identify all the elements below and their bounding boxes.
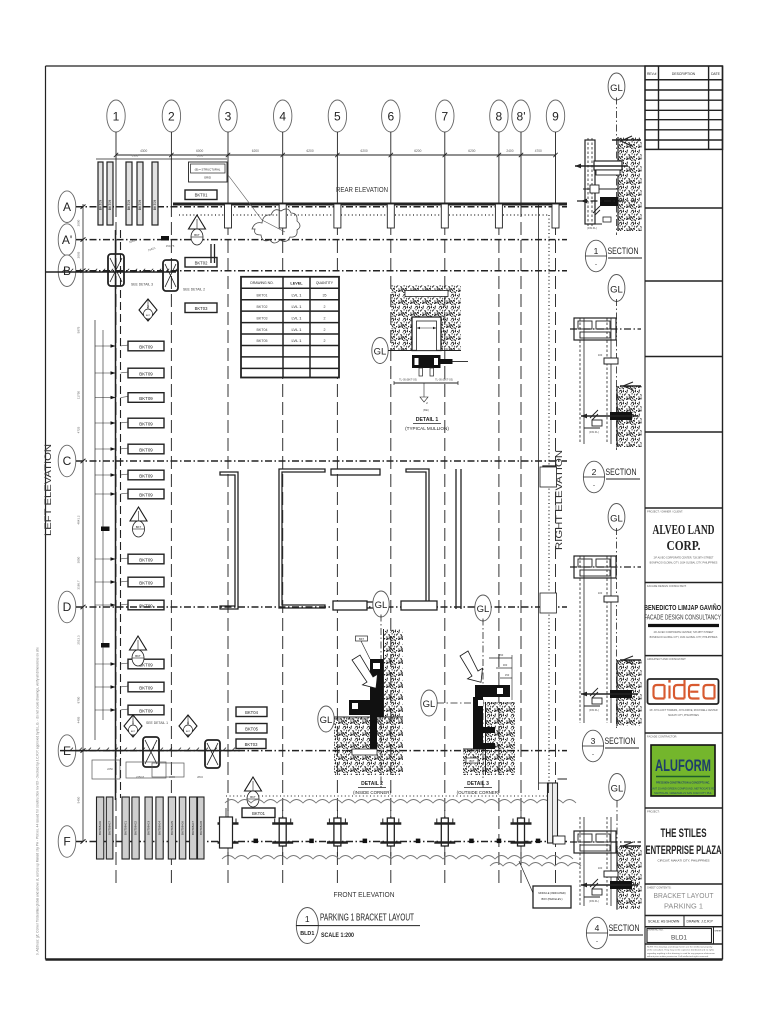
svg-text:4: 4 [595,923,600,933]
drawing number box: BLD1 [645,927,723,944]
svg-text:4841.2: 4841.2 [77,515,81,525]
svg-text:RIGHT ELEVATION: RIGHT ELEVATION [554,450,564,550]
svg-text:3/F JOYA LOFT TOWERS, JOYA DRI: 3/F JOYA LOFT TOWERS, JOYA DRIVE, ROCKWE… [649,709,718,712]
svg-text:1: 1 [305,914,310,924]
svg-text:6200: 6200 [361,149,368,153]
svg-text:2843: 2843 [197,775,203,779]
svg-text:GL: GL [610,83,623,94]
svg-text:LVL 1: LVL 1 [291,292,302,297]
section 2 label [583,461,640,493]
svg-text:DETAIL 2: DETAIL 2 [361,781,383,787]
section 2 detail [570,318,642,447]
svg-text:2250: 2250 [107,767,113,771]
detail 1 GL bubble [372,338,388,364]
bracket label BKT09 #6 [121,470,165,480]
svg-text:2: 2 [324,316,326,320]
svg-text:A: A [63,200,71,214]
bracket label BKT09 #3 [121,393,165,403]
facade consultant block [644,584,723,656]
svg-text:6300: 6300 [132,154,139,158]
marker diamond 2 [139,299,157,321]
first F column fixture [220,808,233,848]
row D beam left [333,601,367,610]
svg-text:MAKATI CITY, PHILIPPINES: MAKATI CITY, PHILIPPINES [668,714,699,717]
svg-text:ENTERPRISE PLAZA: ENTERPRISE PLAZA [646,845,722,857]
grid line 2 vertical [170,155,172,884]
svg-text:4: 4 [279,110,286,124]
svg-text:2: 2 [168,110,175,124]
svg-text:35: 35 [323,293,327,297]
svg-text:BKT09: BKT09 [139,447,153,452]
svg-text:2: 2 [324,305,326,309]
svg-text:BRACKET LAYOUT: BRACKET LAYOUT [654,891,714,900]
F column at grid 7 [434,810,455,856]
svg-text:LVL 1: LVL 1 [291,304,302,309]
svg-text:regarding anything in this dra: regarding anything in this drawing is us… [647,952,715,955]
svg-text:100: 100 [598,353,603,357]
drawing title text [296,913,420,940]
svg-text:REV.#: REV.# [647,72,657,76]
svg-text:GL: GL [423,699,436,710]
svg-text:QUANTITY: QUANTITY [316,281,334,285]
svg-text:2/F ALVEO CORPORATE CENTER, 72: 2/F ALVEO CORPORATE CENTER, 728 28TH STR… [654,631,714,634]
grid bubble 5 [328,100,346,155]
top dimension line [114,149,558,157]
grid line 7 vertical [444,155,446,884]
svg-text:450: 450 [499,653,504,657]
detail 2 leader + small label [356,636,371,659]
marker triangle top [189,215,206,245]
grid bubble 3 [219,100,237,155]
svg-text:SCALE: AS SHOWN: SCALE: AS SHOWN [648,920,680,924]
svg-text:of the consultant. They may no: of the consultant. They may not be copie… [647,949,715,952]
left dimension chain [77,204,86,844]
detail 2 wall edge lines [334,629,403,717]
grid line 8' vertical [520,155,522,884]
svg-text:GRID: GRID [204,176,211,180]
svg-text:7: 7 [441,110,448,124]
svg-text:BKT09: BKT09 [139,492,153,497]
row E tick line [60,748,240,751]
top-left mullion bars [98,162,158,225]
svg-text:3186.7: 3186.7 [77,580,81,590]
interior wall channel 1 [220,472,238,609]
interior wall channel 4 [406,469,429,608]
svg-text:BKT08-07: BKT08-07 [108,821,112,835]
svg-text:(FIN.FL): (FIN.FL) [589,430,599,434]
structural grid legend box [189,162,228,182]
svg-text:BKT: BKT [194,233,200,237]
bracket label BKT09 #7 [121,489,165,499]
svg-text:PROJECT / OWNER / CLIENT:: PROJECT / OWNER / CLIENT: [647,510,683,514]
svg-text:GL: GL [375,600,388,611]
grid line 5 vertical [336,155,338,884]
bracket label BKT09 #4 [121,418,165,428]
svg-text:BKT09: BKT09 [139,473,153,478]
title block column divider [644,66,646,960]
svg-text:BKT: BKT [136,525,142,529]
F column at grid 6 [380,810,401,856]
revision table [645,66,723,149]
svg-text:LVL 1: LVL 1 [291,327,302,332]
detail 1 dim line [394,378,458,413]
svg-text:SEE DETAIL 1: SEE DETAIL 1 [146,721,168,725]
svg-text:(Bkt): (Bkt) [423,408,429,412]
svg-text:BKT08-07: BKT08-07 [191,821,195,835]
svg-text:NOTE: The drawings and design: NOTE: The drawings and design herein are… [647,946,713,949]
svg-text:DETAIL 1: DETAIL 1 [416,417,439,423]
detail 3 caption [457,781,500,795]
svg-text:LVL 1: LVL 1 [291,338,302,343]
see detail 2 text [183,288,205,292]
left elevation text [43,444,53,536]
F column at grid 3 [218,810,239,856]
label box BKT01 top [185,190,217,200]
row bubble E [58,735,567,767]
svg-text:BKT08-02: BKT08-02 [134,821,138,835]
bracket label BKT09 #10 [121,600,165,610]
svg-text:LEVEL: LEVEL [290,282,303,286]
title column empty boxes dividers [645,208,723,508]
svg-text:2: 2 [324,328,326,332]
svg-text:100: 100 [598,866,603,870]
sheet title block: BRACKET LAYOUT PARKING 1 [645,886,723,916]
rear elevation top wall line [173,203,567,206]
svg-text:DRAWN: J.C.R.P: DRAWN: J.C.R.P [687,920,714,924]
section 1 detail [575,136,642,231]
svg-text:BKT02: BKT02 [257,305,268,309]
see detail text E [146,721,168,725]
rear band column at grid 7 [441,204,448,228]
svg-text:-: - [595,262,597,268]
detail 2 GL top bubble [373,591,389,790]
detail 3 black bracket [473,685,510,749]
svg-text:MODULE (INDICATED): MODULE (INDICATED) [538,891,565,895]
svg-text:DRAWING NO.: DRAWING NO. [250,281,273,285]
detail 1 black bracket [412,355,468,376]
svg-text:BKT03: BKT03 [245,742,258,747]
F label box [242,808,275,818]
sheet border frame [46,66,723,960]
svg-text:BKT: BKT [359,637,364,641]
bracket detail B1 [108,254,124,286]
interior beam 3 top [331,469,380,475]
svg-text:BKT08-03: BKT08-03 [147,821,151,835]
left wall line [116,230,121,800]
svg-text:BKT09: BKT09 [138,200,142,210]
svg-text:D: D [63,600,72,614]
svg-text:BKT09: BKT09 [127,200,131,210]
detail 2 stipple [334,629,403,775]
rear band column at grid 8 [495,204,502,228]
row bubble D [58,591,567,623]
svg-text:without prior written permissi: without prior written permission. Full i… [647,955,709,958]
svg-text:SANTOLAN, GREENHILLS SAN JUAN: SANTOLAN, GREENHILLS SAN JUAN CITY PHL [654,791,712,795]
svg-text:SEE DETAIL 2: SEE DETAIL 2 [183,288,205,292]
svg-text:8700: 8700 [77,696,81,703]
bracket label BKT09 #8 [121,554,165,564]
rear band column at grid 3 [225,204,232,228]
svg-text:6200: 6200 [252,149,259,153]
svg-text:(FIN.FL): (FIN.FL) [589,708,599,712]
svg-text:6000: 6000 [197,154,204,158]
F hatched stair bars [97,797,205,859]
detail 3 small label [466,758,478,763]
marker triangle F [245,777,262,807]
vertical bar pair below B [211,244,215,263]
svg-text:GL: GL [320,715,333,726]
svg-text:BKT: BKT [469,759,474,763]
svg-text:8: 8 [496,110,503,124]
svg-text:1: 1 [113,110,120,124]
svg-text:(FIN.FL): (FIN.FL) [589,899,599,903]
row B tick line [46,269,177,272]
bracket label BKT09 #12 [121,682,165,692]
svg-text:CORP.: CORP. [667,538,701,553]
svg-text:BKT09: BKT09 [139,708,153,713]
svg-text:BKT: BKT [186,731,191,733]
svg-text:ARCHITECT AND CONSULTANT:: ARCHITECT AND CONSULTANT: [647,657,686,661]
svg-text:GL: GL [610,514,623,525]
section 2 GL bubble [608,275,625,451]
small black rects C/D [101,527,110,648]
detail 3 GL top bubble [475,595,491,790]
grid line 3 vertical [227,155,229,884]
leader from cloud to legend [228,175,285,232]
right elevation text [554,450,564,550]
svg-text:SEE DETAIL 3: SEE DETAIL 3 [131,283,153,287]
section 1 label [585,240,642,272]
rear band column at grid 9 [552,204,559,228]
row bubble C [58,445,567,477]
svg-text:SHEET: SHEET [714,931,722,933]
marker triangle D [130,636,147,666]
detail 1 stipple concrete [392,285,462,351]
svg-text:4405: 4405 [77,716,81,723]
F column at grid 5 [327,810,348,856]
svg-text:(INSIDE CORNER): (INSIDE CORNER) [353,790,391,795]
svg-text:6200: 6200 [468,149,475,153]
svg-text:BKT01: BKT01 [195,193,208,198]
top-left dim line [96,154,227,160]
black blob on A-prime line [161,236,169,241]
svg-text:B: B [63,264,71,278]
svg-text:150: 150 [505,673,510,677]
E bracket detail 2 [205,740,220,768]
svg-text:BKT08-04: BKT08-04 [158,821,162,835]
svg-text:GL: GL [611,784,624,795]
detail 3 stipple [463,702,515,775]
svg-text:SHEET CONTENTS:: SHEET CONTENTS: [647,886,672,890]
grid bubble 2 [162,100,180,155]
svg-text:BENEDICTO LIMJAP GAVIÑO: BENEDICTO LIMJAP GAVIÑO [644,603,721,612]
svg-text:6200: 6200 [414,149,421,153]
bracket label BKT09 #11 [121,659,165,669]
svg-text:C: C [63,454,72,468]
svg-text:BONIFACIO GLOBAL CITY, 1634 GL: BONIFACIO GLOBAL CITY, 1634 GLOBAL CITY,… [650,562,718,565]
row bubble A' [58,224,567,256]
svg-text:2250.8: 2250.8 [136,775,144,779]
E inner boxes [92,760,184,779]
svg-text:PARKING 1 BRACKET LAYOUT: PARKING 1 BRACKET LAYOUT [320,913,414,924]
wavy match lines [222,800,581,867]
svg-text:6200: 6200 [307,149,314,153]
interior wall lines 5 [456,469,461,609]
detail 2 white arrow [352,655,378,688]
svg-text:BKT09: BKT09 [139,603,153,608]
svg-text:BONIFACIO GLOBAL CITY, 1634 GL: BONIFACIO GLOBAL CITY, 1634 GLOBAL CITY,… [650,636,718,639]
E label boxes [236,707,267,749]
grid line 9 vertical [555,155,557,884]
grid bubble 6 [382,100,400,155]
rear band column at grid 5 [334,204,341,228]
svg-text:3: 3 [225,110,232,124]
detail 1 mullion pocket [405,291,448,351]
svg-text:THE STILES: THE STILES [661,828,707,840]
svg-text:BKT09: BKT09 [153,200,157,210]
fineprint notes [647,946,715,959]
svg-text:2400: 2400 [506,149,513,153]
label box BKT02 [185,258,217,268]
bracket label BKT09 #2 [121,368,165,378]
svg-text:BKT08-06: BKT08-06 [98,821,102,835]
svg-text:4725: 4725 [77,426,81,433]
rear band column at grid 6 [387,204,394,228]
svg-text:DETAIL 3: DETAIL 3 [467,781,489,787]
drawing title bubble [296,908,318,944]
svg-text:BKT09: BKT09 [99,200,103,210]
interior wall channel 2 [279,469,325,608]
svg-text:9: 9 [552,110,559,124]
detail 2 black bracket [349,659,383,755]
svg-text:BKT: BKT [250,795,256,799]
svg-text:TL-05 (BKT-03): TL-05 (BKT-03) [435,378,453,382]
module note box [519,861,571,908]
svg-text:300: 300 [503,663,508,667]
bracket label BKT09 #5 [121,444,165,454]
svg-text:ALUFORM: ALUFORM [655,757,711,775]
grid bubble 1 [107,100,125,155]
facade contractor block: ALUFORM logo [645,735,723,809]
svg-text:PARKING 1: PARKING 1 [664,902,703,911]
svg-text:A': A' [62,233,72,247]
row bubble A [58,191,567,223]
bracket label BKT09 #1 [121,341,165,351]
svg-text:BKT08-08: BKT08-08 [199,821,203,835]
svg-text:2065: 2065 [77,251,81,258]
owner block: ALVEO LAND CORP. [645,510,723,583]
F column at grid 85 [511,810,532,856]
svg-text:SECTION: SECTION [605,736,636,747]
grid line 1 vertical [115,155,117,884]
marker diamond E1 [124,715,142,737]
svg-text:DATE: DATE [711,72,721,76]
section 1 GL bubble [608,73,625,235]
svg-text:TL-05 (BKT-03): TL-05 (BKT-03) [399,378,417,382]
svg-text:BKT03: BKT03 [195,306,208,311]
scale / drawn row [645,916,723,927]
svg-text:(B) = STRUCTURAL: (B) = STRUCTURAL [195,168,221,172]
svg-text:BOX (PER ELEV.): BOX (PER ELEV.) [541,897,562,901]
svg-text:SECTION: SECTION [606,467,637,478]
svg-text:FACADE CONTRACTOR:: FACADE CONTRACTOR: [647,735,677,739]
svg-text:CIRCUIT, MAKATI CITY, PHILIPPI: CIRCUIT, MAKATI CITY, PHILIPPINES [658,859,710,863]
svg-text:-: - [593,483,595,489]
svg-text:2000: 2000 [77,219,81,226]
svg-text:4700: 4700 [535,149,542,153]
svg-text:BKT09: BKT09 [139,557,153,562]
E bracket detail 1 [143,737,159,767]
F column at grid 4 [272,810,293,856]
section 4 GL bubble [609,774,625,911]
svg-text:BKT04: BKT04 [257,328,268,332]
svg-text:BKT04: BKT04 [245,710,258,715]
svg-text:BKT08-01: BKT08-01 [124,821,128,835]
bracket label BKT09 #13 [121,705,165,715]
svg-text:-: - [596,939,598,945]
grid bubble 9 [546,100,564,155]
section 3 GL bubble [608,504,625,731]
svg-text:4300: 4300 [140,149,147,153]
svg-text:BKT01: BKT01 [257,293,268,297]
svg-text:(FIN.FL): (FIN.FL) [587,226,597,230]
interior stub col [543,466,556,485]
rear band column at grid 4 [279,204,286,228]
svg-text:PROJECT:: PROJECT: [647,810,660,814]
label box BKT03 [185,303,217,313]
cloud [252,209,300,243]
svg-text:(TYPICAL MULLION): (TYPICAL MULLION) [405,426,449,431]
svg-text:BKT03: BKT03 [257,316,268,320]
deck boundary dotted [179,215,549,796]
svg-text:BKT09: BKT09 [108,200,112,210]
detail 1 caption [405,417,449,431]
row bubble F [58,826,567,858]
svg-text:9. Address: g/f, Corner Tordes: 9. Address: g/f, Corner Tordesillas glob… [36,647,40,955]
secondary dim verticals [95,320,116,740]
E small dim texts [107,767,203,779]
svg-text:-: - [592,752,594,758]
svg-text:SCALE 1:200: SCALE 1:200 [321,932,354,939]
grid bubble 4 [274,100,292,155]
svg-text:BLD1: BLD1 [300,931,314,937]
svg-text:BKT08-05: BKT08-05 [170,821,174,835]
detail 3 wall edges [463,702,486,775]
front elevation text [334,890,395,899]
grid line 6 vertical [390,155,392,884]
svg-text:150,75: 150,75 [166,244,175,248]
svg-text:BKT02: BKT02 [195,261,208,266]
svg-text:BLD1: BLD1 [671,935,687,942]
svg-text:BKT09: BKT09 [139,580,153,585]
svg-text:ALVEO LAND: ALVEO LAND [653,522,715,537]
svg-text:BKT05: BKT05 [245,727,258,732]
svg-text:BKT09: BKT09 [139,421,153,426]
svg-text:2: 2 [592,467,597,477]
svg-text:BKT05: BKT05 [257,339,268,343]
grid line 4 vertical [282,155,284,884]
detail 3 dims [489,653,512,700]
section 3 label [582,730,639,762]
svg-text:GL: GL [374,347,387,358]
detail 3 white arrow [460,651,483,682]
grid line 8 vertical [498,155,500,884]
svg-text:BKT01: BKT01 [252,811,265,816]
svg-text:8': 8' [517,110,526,124]
section 4 label [586,917,643,949]
detail 1 GL line [388,350,461,352]
svg-text:BKT08-06: BKT08-06 [181,821,185,835]
